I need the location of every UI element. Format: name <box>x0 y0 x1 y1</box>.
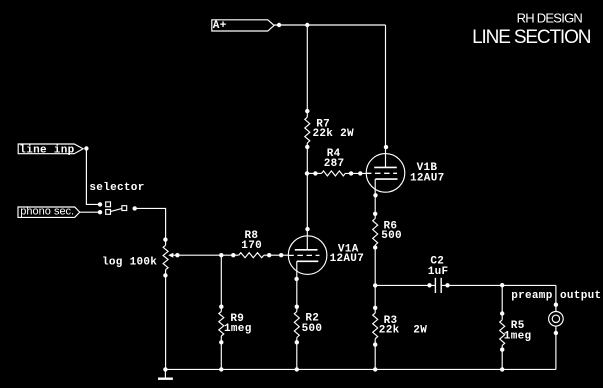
node output top pin <box>554 303 558 307</box>
svg-text:1uF: 1uF <box>428 266 449 278</box>
svg-text:287: 287 <box>324 158 345 170</box>
node R5 at bus <box>500 367 504 371</box>
resistor R9 1meg <box>219 255 252 344</box>
resistor R8 170 <box>239 230 264 258</box>
wire V1B plate from A+ rail <box>385 25 387 167</box>
svg-text:selector: selector <box>89 182 144 194</box>
wire V1B cathode down <box>374 179 376 218</box>
node R8 right pins <box>267 253 283 257</box>
svg-text:log 100k: log 100k <box>102 257 157 269</box>
node output bottom pin <box>554 331 558 335</box>
flag line inp <box>18 144 83 156</box>
node R2 at bus <box>295 367 299 371</box>
node R5 top junction <box>500 283 504 287</box>
svg-text:output: output <box>560 290 601 302</box>
node C2 right pin <box>445 283 449 287</box>
svg-text:LINE SECTION: LINE SECTION <box>472 27 591 48</box>
wire R7 branch vertical <box>306 25 308 117</box>
node A+ junction left <box>277 23 281 27</box>
resistor R4 287 <box>322 148 346 176</box>
resistor R7 22k 2W <box>305 109 354 149</box>
triode V1B 12AU7 <box>366 154 445 193</box>
node ground bus left <box>163 367 167 371</box>
wire line inp to selector <box>86 148 100 204</box>
triode V1A 12AU7 <box>288 236 364 275</box>
node V1B cathode pin <box>373 193 377 197</box>
resistor R2 500 <box>294 305 322 345</box>
title RH DESIGN <box>517 11 583 26</box>
wire R9 bottom to bus <box>220 336 222 369</box>
resistor R3 22k 2W <box>373 306 428 347</box>
switch selector <box>89 182 144 214</box>
svg-text:A+: A+ <box>213 20 227 32</box>
node R4 left junction <box>305 171 318 175</box>
capacitor C2 1uF <box>428 256 449 293</box>
wire R4 to V1B grid <box>345 172 366 174</box>
wire R8 to V1A grid <box>264 254 289 256</box>
wire output drop <box>555 285 557 311</box>
svg-text:phono sec.: phono sec. <box>20 206 74 218</box>
node V1A cathode pin <box>294 277 298 281</box>
wire V1A cathode down <box>296 261 298 311</box>
svg-text:1meg: 1meg <box>504 331 532 343</box>
node C2 left pin <box>427 283 431 287</box>
node V1B plate pin <box>384 145 388 149</box>
power flag A+ <box>212 20 274 32</box>
node wiper junction at R9 <box>219 253 235 257</box>
wire R4 row left <box>307 172 321 174</box>
svg-text:12AU7: 12AU7 <box>330 253 365 265</box>
svg-text:500: 500 <box>381 230 402 242</box>
wire R2 bottom to bus <box>296 338 298 370</box>
potentiometer log 100k <box>102 237 180 277</box>
svg-text:preamp: preamp <box>511 290 553 302</box>
svg-text:1meg: 1meg <box>224 323 252 335</box>
wire phono sec to selector <box>80 211 100 213</box>
svg-text:500: 500 <box>302 323 323 335</box>
wire output to bus corner <box>555 326 557 369</box>
flag phono sec <box>18 206 80 218</box>
node C2 tap junction <box>373 283 377 287</box>
node V1A plate pin <box>305 227 309 231</box>
wire R3 bottom to ground bus <box>374 339 376 370</box>
connector preamp output jack <box>511 290 601 326</box>
wire selector to pot <box>135 208 166 245</box>
wire wiper to R8 <box>177 254 238 256</box>
node R4 right pins <box>349 171 363 175</box>
svg-text:22k 2W: 22k 2W <box>379 325 427 337</box>
svg-text:line inp: line inp <box>19 144 74 156</box>
wire C2 right to output <box>442 284 556 286</box>
resistor R6 500 <box>373 212 402 250</box>
svg-text:22k 2W: 22k 2W <box>313 128 355 140</box>
svg-text:12AU7: 12AU7 <box>410 172 445 184</box>
ground symbol <box>158 369 173 378</box>
svg-text:170: 170 <box>241 240 262 252</box>
wire A+ rail horizontal <box>274 24 385 26</box>
svg-text:RH DESIGN: RH DESIGN <box>517 11 583 26</box>
node R9 at bus <box>219 367 223 371</box>
wire ground bus <box>165 368 556 370</box>
node R3 at bus <box>373 367 377 371</box>
wire C2 left lead <box>375 284 435 286</box>
wire R5 bottom to bus <box>501 345 503 369</box>
node line inp pin <box>84 146 88 150</box>
wire V1A plate from R4 node <box>306 173 308 249</box>
title LINE SECTION <box>472 27 591 48</box>
node A+ junction at R7 branch <box>305 23 309 27</box>
wire R6 bottom to C2 node <box>374 245 376 313</box>
wire R7 bottom to R4 node <box>306 143 308 173</box>
wire pot bottom to ground <box>165 270 167 370</box>
resistor R5 1meg <box>500 285 532 351</box>
